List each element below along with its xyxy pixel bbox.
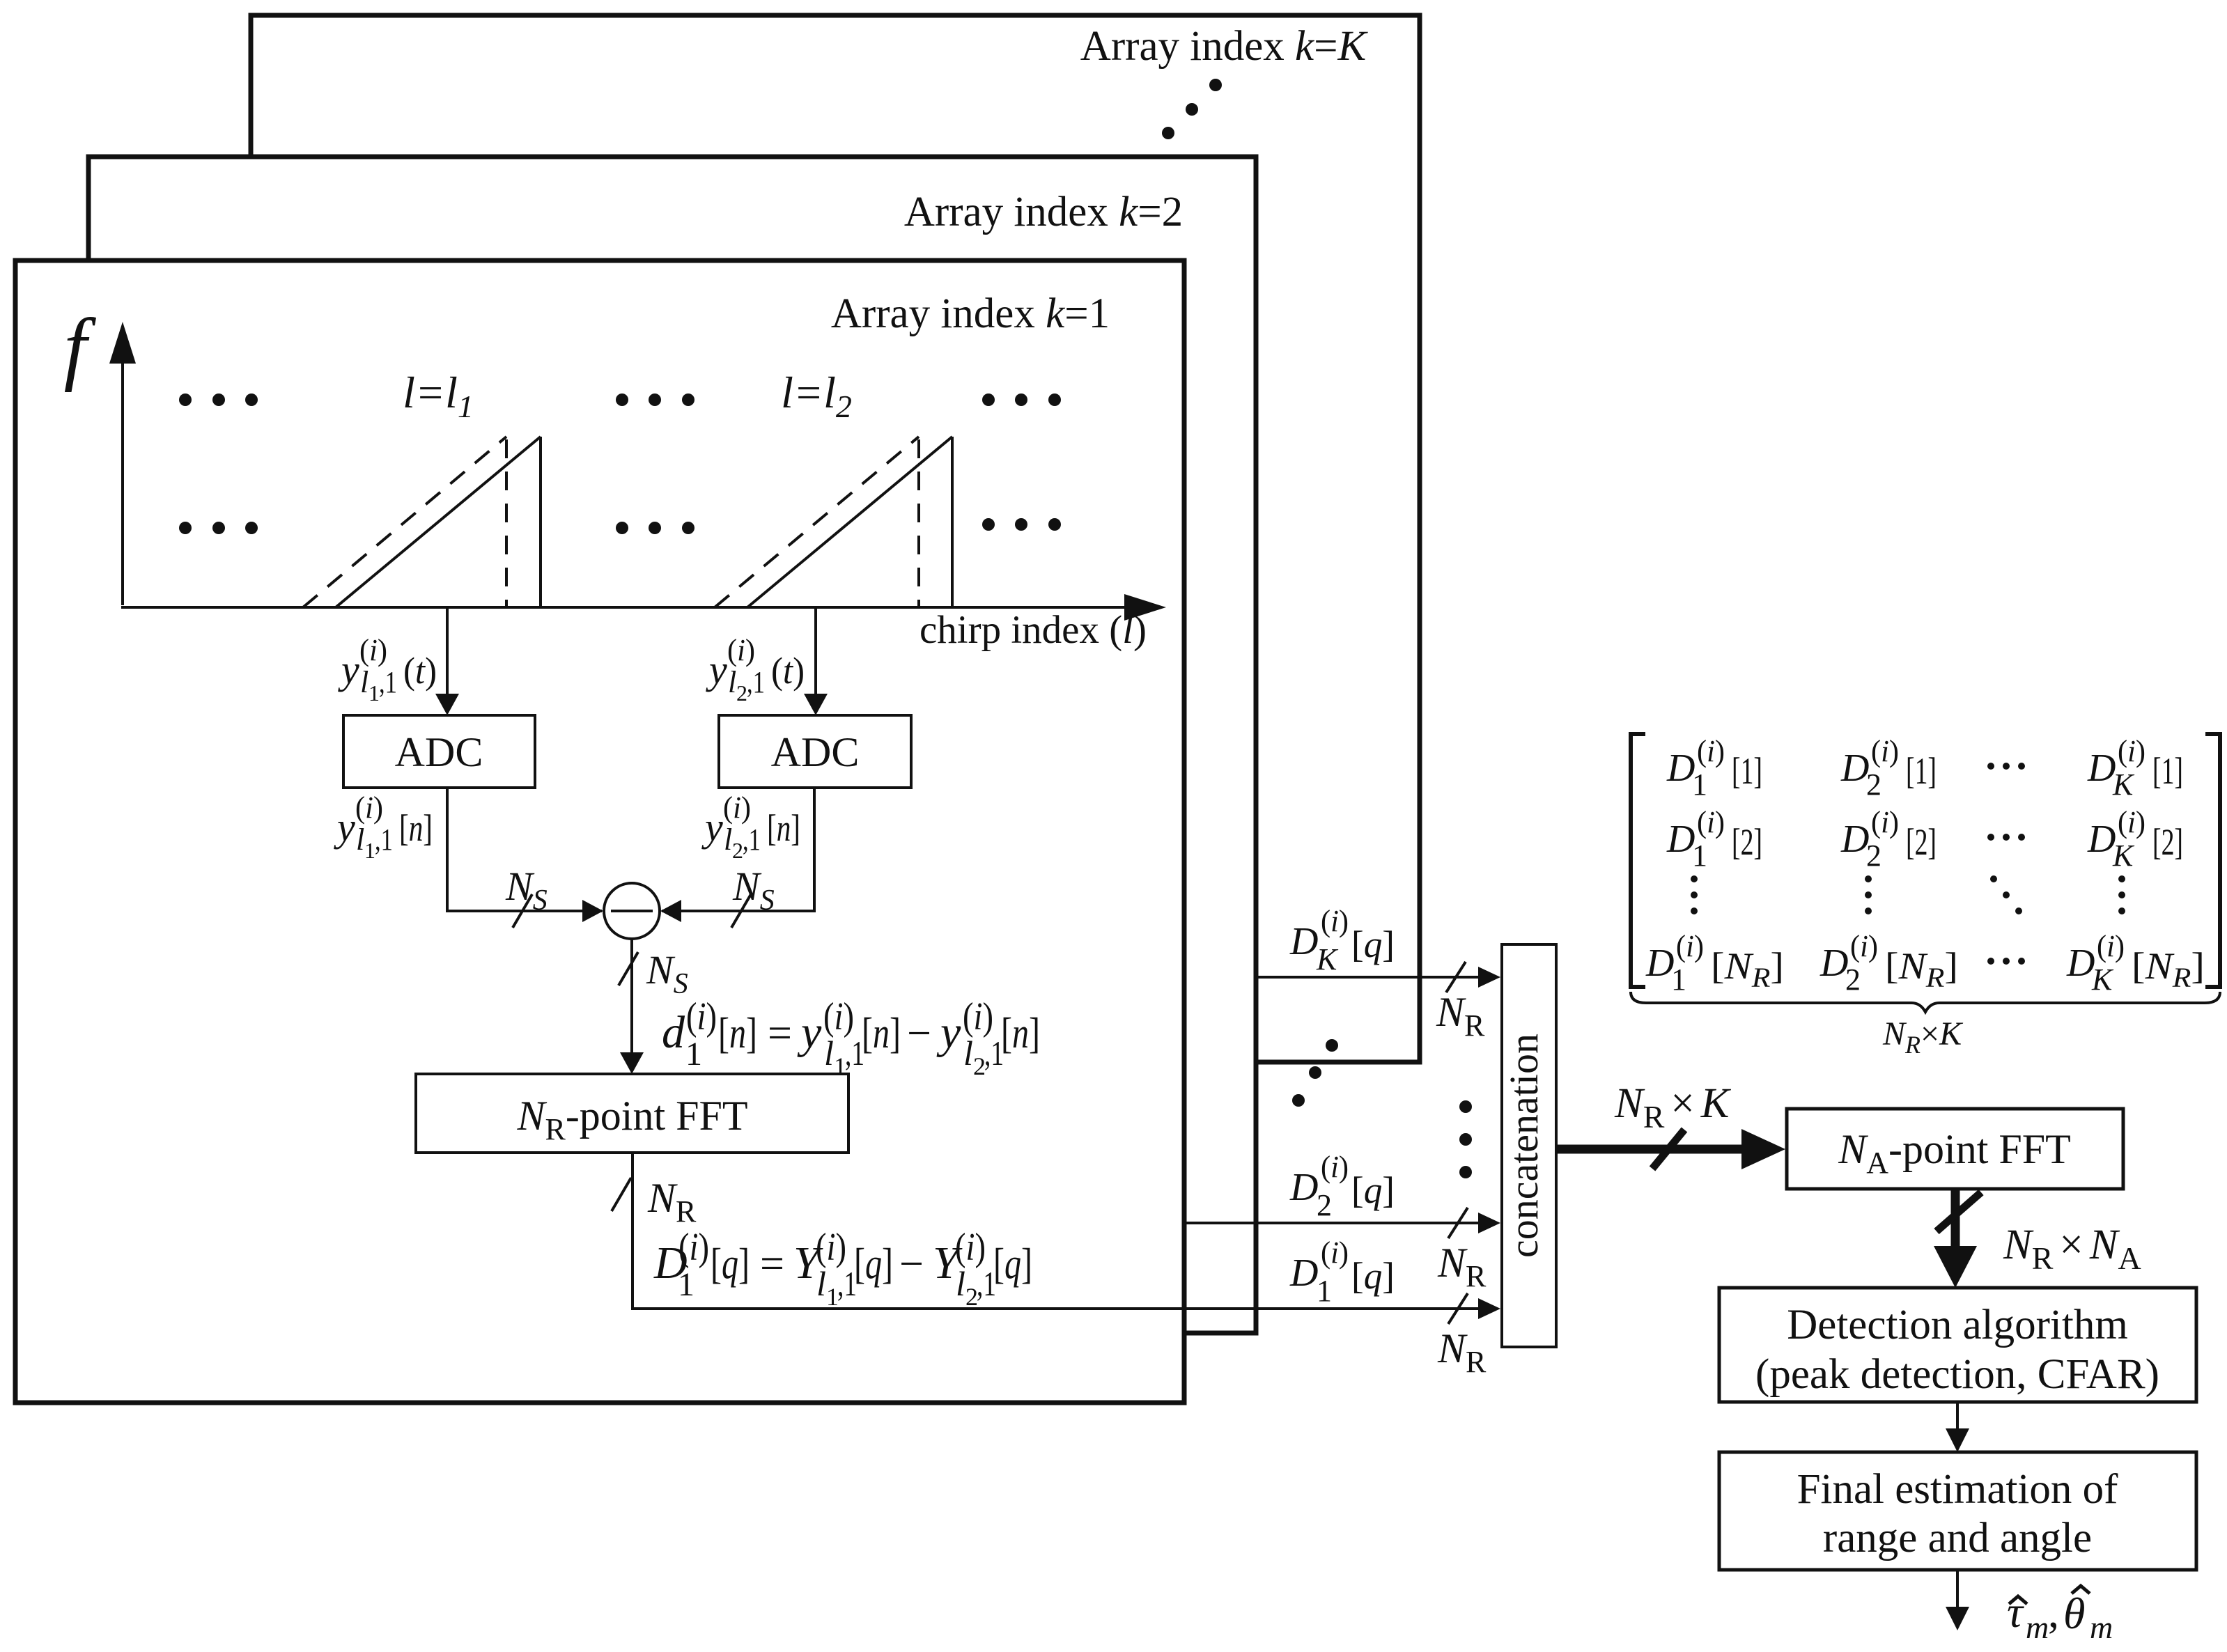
dots right row1 xyxy=(982,393,1061,406)
svg-text:[2]: [2] xyxy=(1732,821,1762,863)
svg-text:,1: ,1 xyxy=(375,823,393,857)
box array plane k=1 xyxy=(15,260,1184,1403)
label D_2(i)[q] xyxy=(1289,1150,1395,1222)
svg-text:K: K xyxy=(2091,963,2114,997)
svg-text:d: d xyxy=(662,1007,685,1058)
equation d1(i)[n] = y_l1,1(i)[n] - y_l2,1(i)[n] xyxy=(662,995,1040,1080)
slash below FFT xyxy=(612,1178,631,1211)
svg-text:(i): (i) xyxy=(2097,929,2125,963)
svg-text:Final estimation of: Final estimation of xyxy=(1797,1466,2119,1513)
svg-text:[1]: [1] xyxy=(2152,750,2183,792)
svg-text:NR×K: NR×K xyxy=(1614,1080,1732,1135)
svg-text:,1: ,1 xyxy=(379,665,397,699)
dots left row1 xyxy=(179,393,258,406)
dots middle row1 xyxy=(616,393,695,406)
svg-text:2: 2 xyxy=(736,680,747,706)
chirp 2 dashed ramp xyxy=(715,437,919,607)
svg-text:1: 1 xyxy=(1317,1274,1332,1308)
svg-text:(i): (i) xyxy=(1871,734,1899,768)
svg-text:=: = xyxy=(768,1010,792,1057)
f axis xyxy=(121,347,124,605)
svg-text:D: D xyxy=(2087,747,2116,790)
svg-text:l: l xyxy=(824,1034,834,1073)
svg-text:2: 2 xyxy=(732,838,743,863)
svg-text:,1: ,1 xyxy=(743,823,761,857)
wire subtractor to FFT xyxy=(630,939,633,1053)
svg-text:D: D xyxy=(1840,818,1869,861)
svg-text:,: , xyxy=(2048,1587,2059,1637)
svg-text:(i): (i) xyxy=(2118,734,2145,768)
box final estimation xyxy=(1719,1452,2196,1570)
svg-text:(i): (i) xyxy=(1697,805,1725,839)
svg-text:Detection algorithm: Detection algorithm xyxy=(1787,1302,2128,1348)
wire FFT output down and right to concatenation (D1) xyxy=(633,1153,1491,1309)
label y_l1,1 (i) (t) xyxy=(338,633,437,706)
wire DK from plane k=2 edge to concatenation xyxy=(1257,976,1491,979)
svg-text:−: − xyxy=(899,1240,924,1288)
matrix cell r2c2 D_2(i)[2] xyxy=(1840,805,1937,873)
svg-text:concatenation: concatenation xyxy=(1501,1034,1546,1258)
svg-text:D: D xyxy=(1840,747,1869,790)
svg-text:[q]: [q] xyxy=(854,1240,893,1288)
svg-text:1: 1 xyxy=(364,838,375,863)
svg-text:D: D xyxy=(1819,942,1848,985)
svg-text:[NR]: [NR] xyxy=(2132,945,2205,993)
svg-text:1: 1 xyxy=(368,680,380,706)
svg-text:y: y xyxy=(706,647,727,692)
matrix cell r4c2 D_2(i)[NR] xyxy=(1819,929,1958,997)
arrow detection to final xyxy=(1956,1402,1959,1435)
label y_l2,1 (i) [n] xyxy=(701,790,800,863)
svg-text:2: 2 xyxy=(1317,1188,1332,1222)
slash below subtractor xyxy=(619,952,638,985)
svg-text:=: = xyxy=(760,1240,784,1288)
svg-text:2: 2 xyxy=(1866,839,1881,873)
svg-text:[n]: [n] xyxy=(399,807,433,849)
svg-text:[NR]: [NR] xyxy=(1885,945,1958,993)
matrix cdots r2 xyxy=(1987,834,2025,841)
equation D1(i)[q] = Y_l1,1(i)[q] - Y_l2,1(i)[q] xyxy=(653,1226,1032,1311)
slash on D1 wire xyxy=(1448,1293,1468,1324)
svg-text:2: 2 xyxy=(1845,963,1861,997)
svg-text:1: 1 xyxy=(678,1266,695,1303)
svg-text:1: 1 xyxy=(1692,839,1707,873)
dots middle row2 xyxy=(616,522,695,534)
thick bus NA-FFT down to detection xyxy=(1951,1189,1960,1259)
label D_1(i)[q] xyxy=(1289,1236,1395,1308)
svg-text:l: l xyxy=(356,823,364,857)
box concatenation xyxy=(1502,944,1556,1347)
svg-text:[1]: [1] xyxy=(1906,750,1937,792)
svg-text:(i): (i) xyxy=(355,790,383,825)
svg-text:l: l xyxy=(816,1264,826,1303)
svg-text:Array index k=1: Array index k=1 xyxy=(831,290,1110,337)
svg-text:y: y xyxy=(338,647,359,692)
svg-text:[q]: [q] xyxy=(1351,924,1395,965)
wire axis to ADC1 xyxy=(446,607,449,696)
label D_K(i)[q] xyxy=(1289,904,1395,976)
subtractor node xyxy=(604,883,660,939)
svg-text:(i): (i) xyxy=(727,633,755,667)
wire D2 from plane k=1 edge to concatenation xyxy=(1184,1222,1491,1224)
svg-text:chirp index (l): chirp index (l) xyxy=(919,608,1147,652)
matrix cell r2c1 D_1(i)[2] xyxy=(1666,805,1762,873)
svg-text:NR×K: NR×K xyxy=(1882,1015,1964,1059)
svg-text:y: y xyxy=(701,804,723,850)
svg-text:[2]: [2] xyxy=(1906,821,1937,863)
svg-text:K: K xyxy=(1316,942,1339,976)
wire ADC1 output to subtractor xyxy=(447,788,602,911)
dots diagonal between DK and D2 wires xyxy=(1292,1039,1338,1107)
label tau_m, theta_m xyxy=(2007,1586,2113,1645)
svg-text:1: 1 xyxy=(1692,767,1707,802)
label y_l1,1 (i) [n] xyxy=(334,790,433,863)
svg-text:Array index k=2: Array index k=2 xyxy=(904,189,1183,235)
svg-text:(i): (i) xyxy=(1321,1150,1349,1184)
svg-text:(t): (t) xyxy=(771,650,805,692)
svg-text:,1: ,1 xyxy=(747,665,765,699)
svg-text:θ: θ xyxy=(2063,1589,2085,1638)
matrix cell r4c4 D_K(i)[NR] xyxy=(2066,929,2205,997)
box array plane k=K xyxy=(251,15,1420,1062)
slash on left subtractor wire xyxy=(513,894,532,928)
svg-text:y: y xyxy=(936,1007,961,1058)
svg-text:[n]: [n] xyxy=(1001,1010,1040,1057)
box ADC 1 xyxy=(343,715,535,788)
matrix cell r1c1 D_1(i)[1] xyxy=(1666,734,1762,802)
matrix cell r2c4 D_K(i)[2] xyxy=(2087,805,2183,873)
svg-text:τ: τ xyxy=(2007,1587,2024,1637)
box NA-point FFT xyxy=(1787,1109,2123,1189)
dots diagonal between plane k=2 and k=K xyxy=(1162,79,1222,139)
svg-text:D: D xyxy=(1289,1166,1318,1209)
svg-text:y: y xyxy=(334,804,355,850)
thick bus concatenation to NA-FFT xyxy=(1558,1145,1748,1154)
arrow final output xyxy=(1956,1570,1959,1612)
svg-text:ADC: ADC xyxy=(771,729,860,775)
svg-text:Array index k=K: Array index k=K xyxy=(1080,23,1369,70)
svg-text:(i): (i) xyxy=(1871,805,1899,839)
matrix ddots c3 xyxy=(1990,875,2022,914)
svg-text:D: D xyxy=(1289,1252,1318,1295)
box ADC 2 xyxy=(719,715,911,788)
chirp 1 dashed ramp xyxy=(303,437,506,607)
matrix cell r4c1 D_1(i)[NR] xyxy=(1645,929,1784,997)
dots left row2 xyxy=(179,522,258,534)
svg-text:D: D xyxy=(1666,747,1695,790)
svg-text:−: − xyxy=(907,1010,931,1057)
svg-text:(i): (i) xyxy=(686,995,717,1038)
svg-text:(i): (i) xyxy=(2118,805,2145,839)
slash on DK wire xyxy=(1446,962,1466,992)
svg-text:(i): (i) xyxy=(1676,929,1704,963)
svg-text:K: K xyxy=(2112,767,2135,802)
svg-text:K: K xyxy=(2112,839,2135,873)
label y_l2,1 (i) (t) xyxy=(706,633,805,706)
svg-text:[q]: [q] xyxy=(1351,1169,1395,1211)
svg-text:D: D xyxy=(1289,920,1318,963)
matrix cell r1c4 D_K(i)[1] xyxy=(2087,734,2183,802)
thick slash on horizontal bus xyxy=(1652,1130,1684,1169)
chirp index axis xyxy=(121,606,1141,609)
svg-text:1: 1 xyxy=(685,1036,702,1073)
svg-text:range and angle: range and angle xyxy=(1823,1515,2092,1561)
svg-text:[q]: [q] xyxy=(993,1240,1032,1288)
svg-text:l: l xyxy=(963,1034,973,1073)
chirp 1 solid ramp xyxy=(336,437,541,607)
matrix right bracket xyxy=(2205,734,2220,987)
svg-text:y: y xyxy=(797,1007,822,1058)
svg-text:(i): (i) xyxy=(955,1226,986,1269)
svg-text:(i): (i) xyxy=(1850,929,1878,963)
svg-text:(i): (i) xyxy=(359,633,387,667)
matrix left bracket xyxy=(1631,734,1645,987)
svg-text:m: m xyxy=(2026,1610,2049,1645)
svg-text:[n]: [n] xyxy=(862,1010,901,1057)
svg-text:(i): (i) xyxy=(678,1226,709,1269)
matrix vdots c2 xyxy=(1865,875,1872,914)
svg-text:(t): (t) xyxy=(403,650,437,692)
box detection algorithm xyxy=(1719,1288,2196,1402)
svg-text:l: l xyxy=(360,665,368,699)
svg-text:[1]: [1] xyxy=(1732,750,1762,792)
svg-text:(i): (i) xyxy=(1321,904,1349,938)
svg-text:[n]: [n] xyxy=(718,1010,757,1057)
svg-text:(peak detection, CFAR): (peak detection, CFAR) xyxy=(1755,1351,2159,1398)
svg-text:1: 1 xyxy=(1671,963,1686,997)
svg-text:(i): (i) xyxy=(963,995,993,1038)
svg-text:[q]: [q] xyxy=(1351,1255,1395,1297)
svg-text:[q]: [q] xyxy=(711,1240,750,1288)
svg-text:[NR]: [NR] xyxy=(1711,945,1784,993)
svg-text:D: D xyxy=(2066,942,2095,985)
svg-text:(i): (i) xyxy=(1321,1236,1349,1270)
svg-text:[n]: [n] xyxy=(767,807,800,849)
svg-text:D: D xyxy=(2087,818,2116,861)
dots right row2 xyxy=(982,518,1061,531)
svg-text:D: D xyxy=(1666,818,1695,861)
matrix cell r1c2 D_2(i)[1] xyxy=(1840,734,1937,802)
matrix cdots r4 xyxy=(1987,958,2025,965)
svg-text:(i): (i) xyxy=(1697,734,1725,768)
svg-text:l: l xyxy=(728,665,736,699)
dots vertical before concatenation xyxy=(1459,1100,1472,1178)
svg-text:2: 2 xyxy=(1866,767,1881,802)
svg-text:(i): (i) xyxy=(816,1226,846,1269)
matrix vdots c4 xyxy=(2118,875,2125,914)
svg-text:(i): (i) xyxy=(723,790,751,825)
slash on right subtractor wire xyxy=(731,894,751,928)
box NR-point FFT xyxy=(416,1074,848,1153)
matrix underbrace xyxy=(1631,992,2220,1012)
matrix cdots r1 xyxy=(1987,763,2025,770)
slash on D2 wire xyxy=(1448,1208,1468,1238)
wire axis to ADC2 xyxy=(814,607,817,696)
matrix vdots c1 xyxy=(1691,875,1698,914)
svg-text:Y: Y xyxy=(933,1238,963,1288)
svg-text:m: m xyxy=(2090,1610,2113,1645)
wire ADC2 output to subtractor xyxy=(662,788,814,911)
box array plane k=2 xyxy=(88,157,1256,1333)
svg-text:l: l xyxy=(724,823,732,857)
svg-text:ADC: ADC xyxy=(395,729,483,775)
svg-text:[2]: [2] xyxy=(2152,821,2183,863)
svg-text:(i): (i) xyxy=(823,995,854,1038)
thick slash on vertical bus xyxy=(1937,1192,1981,1231)
svg-text:D: D xyxy=(1645,942,1674,985)
chirp 2 solid ramp xyxy=(747,437,952,607)
